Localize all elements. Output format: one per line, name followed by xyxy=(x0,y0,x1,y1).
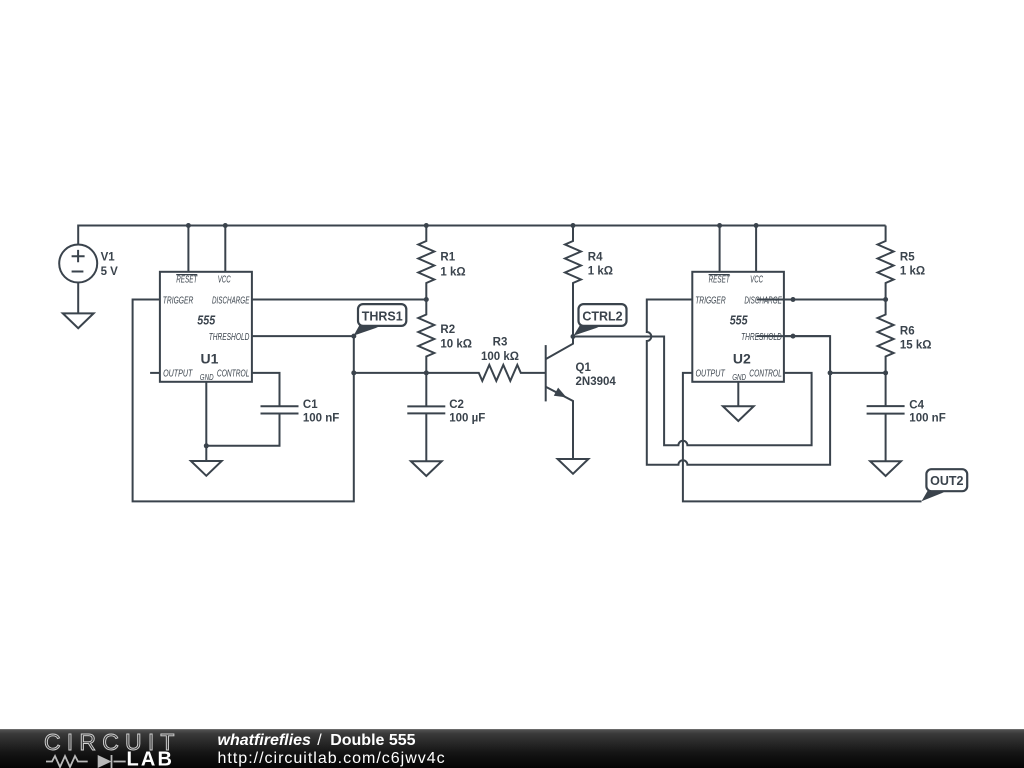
svg-text:C1: C1 xyxy=(303,399,318,411)
svg-text:OUT2: OUT2 xyxy=(930,474,963,488)
svg-text:DISCHARGE: DISCHARGE xyxy=(212,294,250,306)
svg-text:U2: U2 xyxy=(733,351,751,367)
svg-text:100 kΩ: 100 kΩ xyxy=(481,351,519,363)
svg-text:THRESHOLD: THRESHOLD xyxy=(209,331,250,343)
svg-text:VCC: VCC xyxy=(218,273,231,285)
svg-text:R6: R6 xyxy=(900,326,915,338)
svg-text:Q1: Q1 xyxy=(576,362,592,374)
svg-text:R4: R4 xyxy=(588,251,603,263)
svg-text:whatfireflies / Double 555: whatfireflies / Double 555 xyxy=(218,732,416,749)
svg-text:C4: C4 xyxy=(909,399,924,411)
svg-text:1 kΩ: 1 kΩ xyxy=(588,266,613,278)
svg-text:15 kΩ: 15 kΩ xyxy=(900,340,932,352)
svg-text:http://circuitlab.com/c6jwv4c: http://circuitlab.com/c6jwv4c xyxy=(218,750,446,767)
svg-text:R3: R3 xyxy=(493,336,508,348)
svg-text:1 kΩ: 1 kΩ xyxy=(900,266,925,278)
svg-text:R1: R1 xyxy=(440,251,455,263)
svg-text:OUTPUT: OUTPUT xyxy=(696,368,726,380)
svg-text:R2: R2 xyxy=(440,324,455,336)
svg-text:100 nF: 100 nF xyxy=(303,412,339,424)
svg-text:100 µF: 100 µF xyxy=(449,413,485,425)
svg-text:R5: R5 xyxy=(900,251,915,263)
svg-text:CTRL2: CTRL2 xyxy=(582,309,622,323)
svg-text:C2: C2 xyxy=(449,399,464,411)
svg-text:555: 555 xyxy=(730,313,749,327)
svg-text:LAB: LAB xyxy=(127,749,175,768)
svg-text:10 kΩ: 10 kΩ xyxy=(440,339,472,351)
svg-text:2N3904: 2N3904 xyxy=(576,376,617,388)
svg-text:GND: GND xyxy=(200,372,214,382)
svg-text:V1: V1 xyxy=(101,251,116,263)
svg-text:OUTPUT: OUTPUT xyxy=(163,368,193,380)
svg-text:TRIGGER: TRIGGER xyxy=(695,294,726,306)
svg-text:1 kΩ: 1 kΩ xyxy=(440,266,465,278)
svg-text:555: 555 xyxy=(197,313,216,327)
svg-text:CONTROL: CONTROL xyxy=(217,368,250,380)
svg-text:CONTROL: CONTROL xyxy=(749,368,782,380)
svg-text:5 V: 5 V xyxy=(101,266,119,278)
svg-text:THRS1: THRS1 xyxy=(362,309,403,323)
svg-text:TRIGGER: TRIGGER xyxy=(163,294,194,306)
svg-text:U1: U1 xyxy=(201,351,219,367)
svg-text:VCC: VCC xyxy=(750,273,763,285)
svg-text:GND: GND xyxy=(732,372,746,382)
svg-text:100 nF: 100 nF xyxy=(909,413,945,425)
